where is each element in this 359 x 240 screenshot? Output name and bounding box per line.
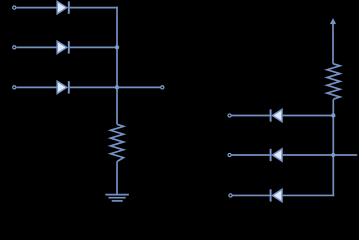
wire right bus vertical (resistor to row 3) [332,99,335,195]
junction node row 2 / bus [115,45,119,49]
junction node row 1 / right bus [331,113,335,117]
wire row 1 (diode D4 to bus) [283,115,334,117]
wire row 2 left (terminal B to diode D2) [17,46,58,48]
wire row 3 right (diode D3 to bus) [70,86,117,88]
diode D2 [57,41,69,53]
wire row 1 (terminal D to diode D4) [232,115,271,117]
junction node row 3 / bus [115,85,119,89]
wire row 3 (diode D6 to bus corner) [283,194,335,196]
input terminal C (left row 3) [13,86,16,89]
power supply V+ arrow [330,18,336,64]
wire output right (bus to right edge) [333,154,357,156]
wire row 2 (terminal E to diode D5) [232,154,271,156]
diode D3 [57,81,69,93]
wire row 3 left (terminal C to diode D3) [17,86,58,88]
input terminal B (left row 2) [13,46,16,49]
wire row 1 right (diode D1 to bus) [70,7,118,9]
diode D5 [271,149,282,161]
diode D1 [57,1,69,13]
wire output left (bus to output terminal) [117,86,160,88]
input terminal E (right row 2) [228,153,231,156]
output terminal left [161,86,164,89]
input terminal D (right row 1) [228,114,231,117]
diode D4 [271,109,282,121]
resistor R2 (pull-up) [327,64,340,99]
resistor R1 (pull-down) [111,124,124,161]
diode D6 [271,189,282,201]
wire row 1 left (terminal A to diode D1) [17,7,58,9]
wire resistor R1 to ground [116,162,118,195]
ground [105,195,128,201]
input terminal A (left row 1) [13,6,16,9]
wire row 2 right (diode D2 to bus) [70,46,117,48]
wire left bus vertical [116,7,118,125]
input terminal F (right row 3) [229,194,232,197]
wire row 2 (diode D5 to bus) [283,154,334,156]
junction node row 2 / right bus [331,153,335,157]
wire row 3 (terminal F to diode D6) [233,194,271,196]
